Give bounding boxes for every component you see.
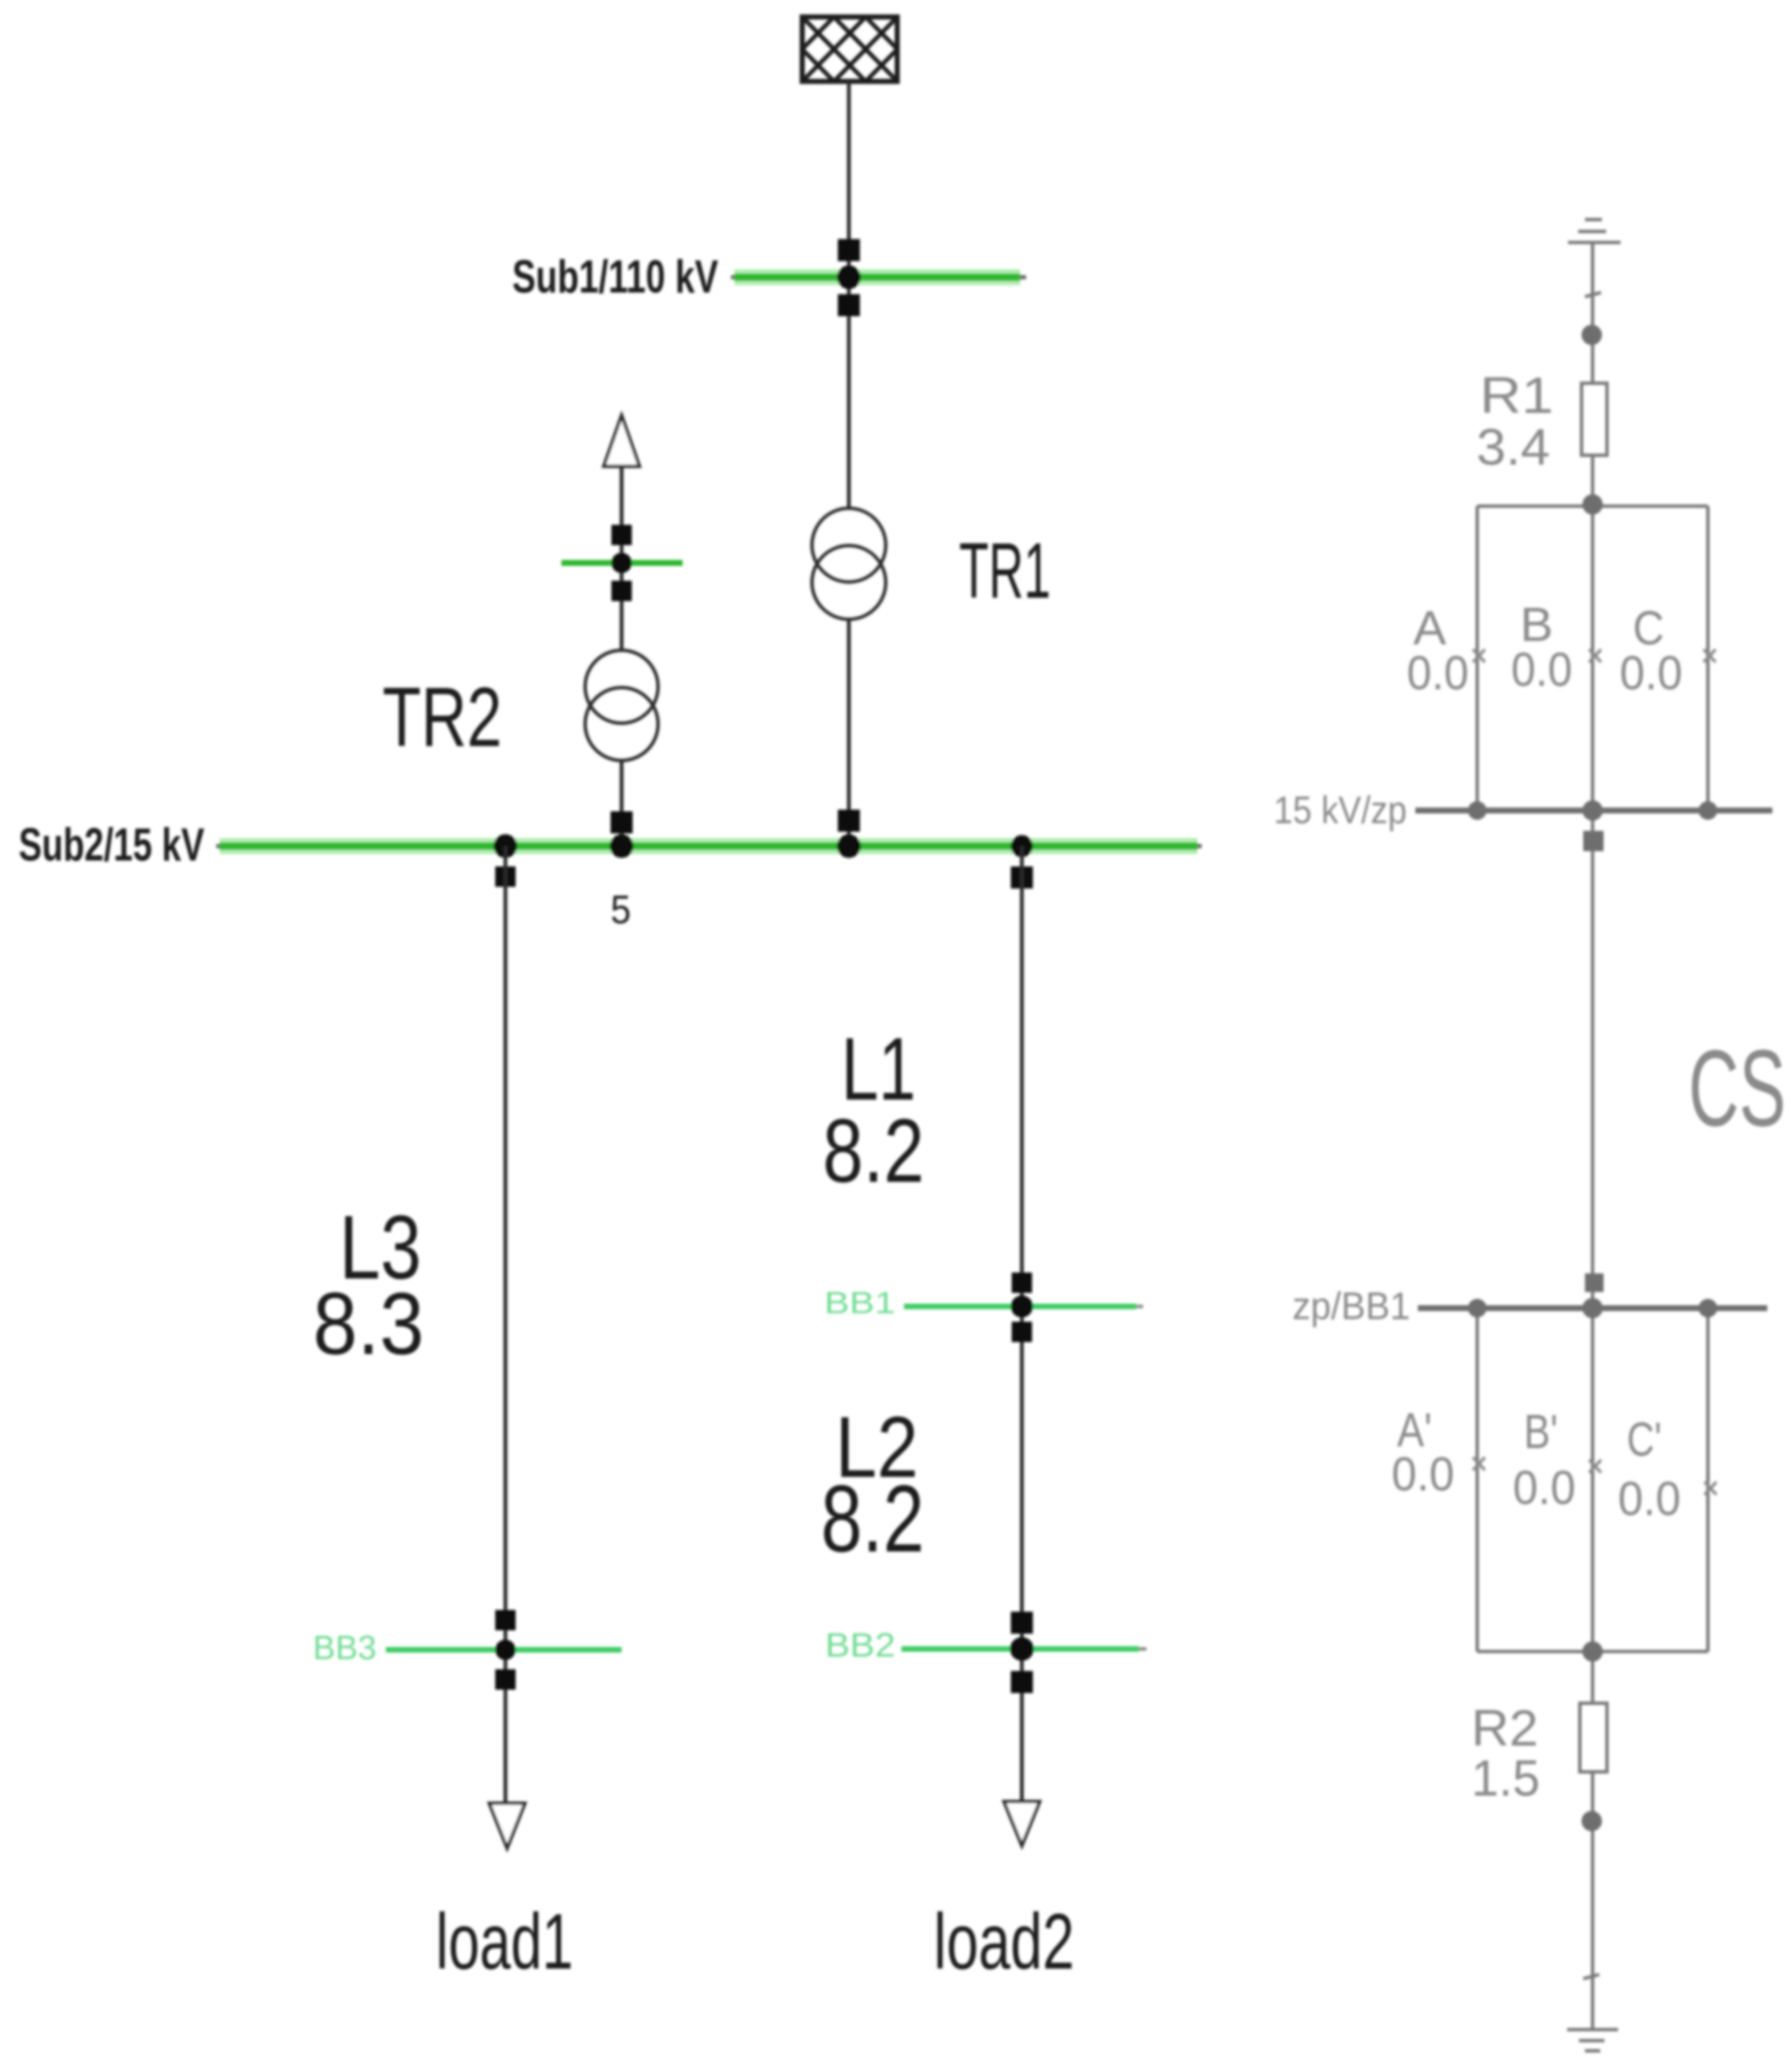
svg-text:8.2: 8.2 — [823, 1100, 924, 1201]
svg-text:0.0: 0.0 — [1407, 646, 1469, 700]
svg-text:15 kV/zp: 15 kV/zp — [1274, 788, 1407, 832]
svg-text:0.0: 0.0 — [1618, 1472, 1681, 1526]
svg-text:R2: R2 — [1471, 1700, 1538, 1757]
svg-text:0.0: 0.0 — [1392, 1447, 1454, 1501]
svg-text:0.0: 0.0 — [1511, 643, 1572, 697]
svg-text:1.5: 1.5 — [1471, 1750, 1540, 1807]
svg-text:load2: load2 — [934, 1897, 1074, 1986]
svg-text:0.0: 0.0 — [1620, 646, 1682, 700]
svg-text:BB2: BB2 — [825, 1627, 895, 1664]
svg-text:TR1: TR1 — [959, 526, 1051, 615]
svg-text:zp/BB1: zp/BB1 — [1292, 1284, 1410, 1328]
svg-text:R1: R1 — [1480, 367, 1554, 424]
svg-text:8.2: 8.2 — [821, 1466, 924, 1572]
svg-text:BB1: BB1 — [824, 1285, 895, 1320]
svg-text:B': B' — [1524, 1405, 1558, 1459]
svg-text:Sub1/110 kV: Sub1/110 kV — [512, 250, 718, 303]
svg-text:TR2: TR2 — [382, 670, 502, 764]
svg-text:8.3: 8.3 — [313, 1275, 424, 1373]
svg-text:0.0: 0.0 — [1513, 1461, 1576, 1515]
svg-text:load1: load1 — [436, 1897, 573, 1986]
svg-text:CS: CS — [1688, 1028, 1786, 1150]
svg-text:3.4: 3.4 — [1476, 419, 1550, 476]
svg-text:5: 5 — [611, 887, 631, 932]
svg-text:Sub2/15 kV: Sub2/15 kV — [19, 818, 204, 871]
svg-text:C': C' — [1627, 1412, 1662, 1467]
svg-text:BB3: BB3 — [313, 1629, 377, 1667]
